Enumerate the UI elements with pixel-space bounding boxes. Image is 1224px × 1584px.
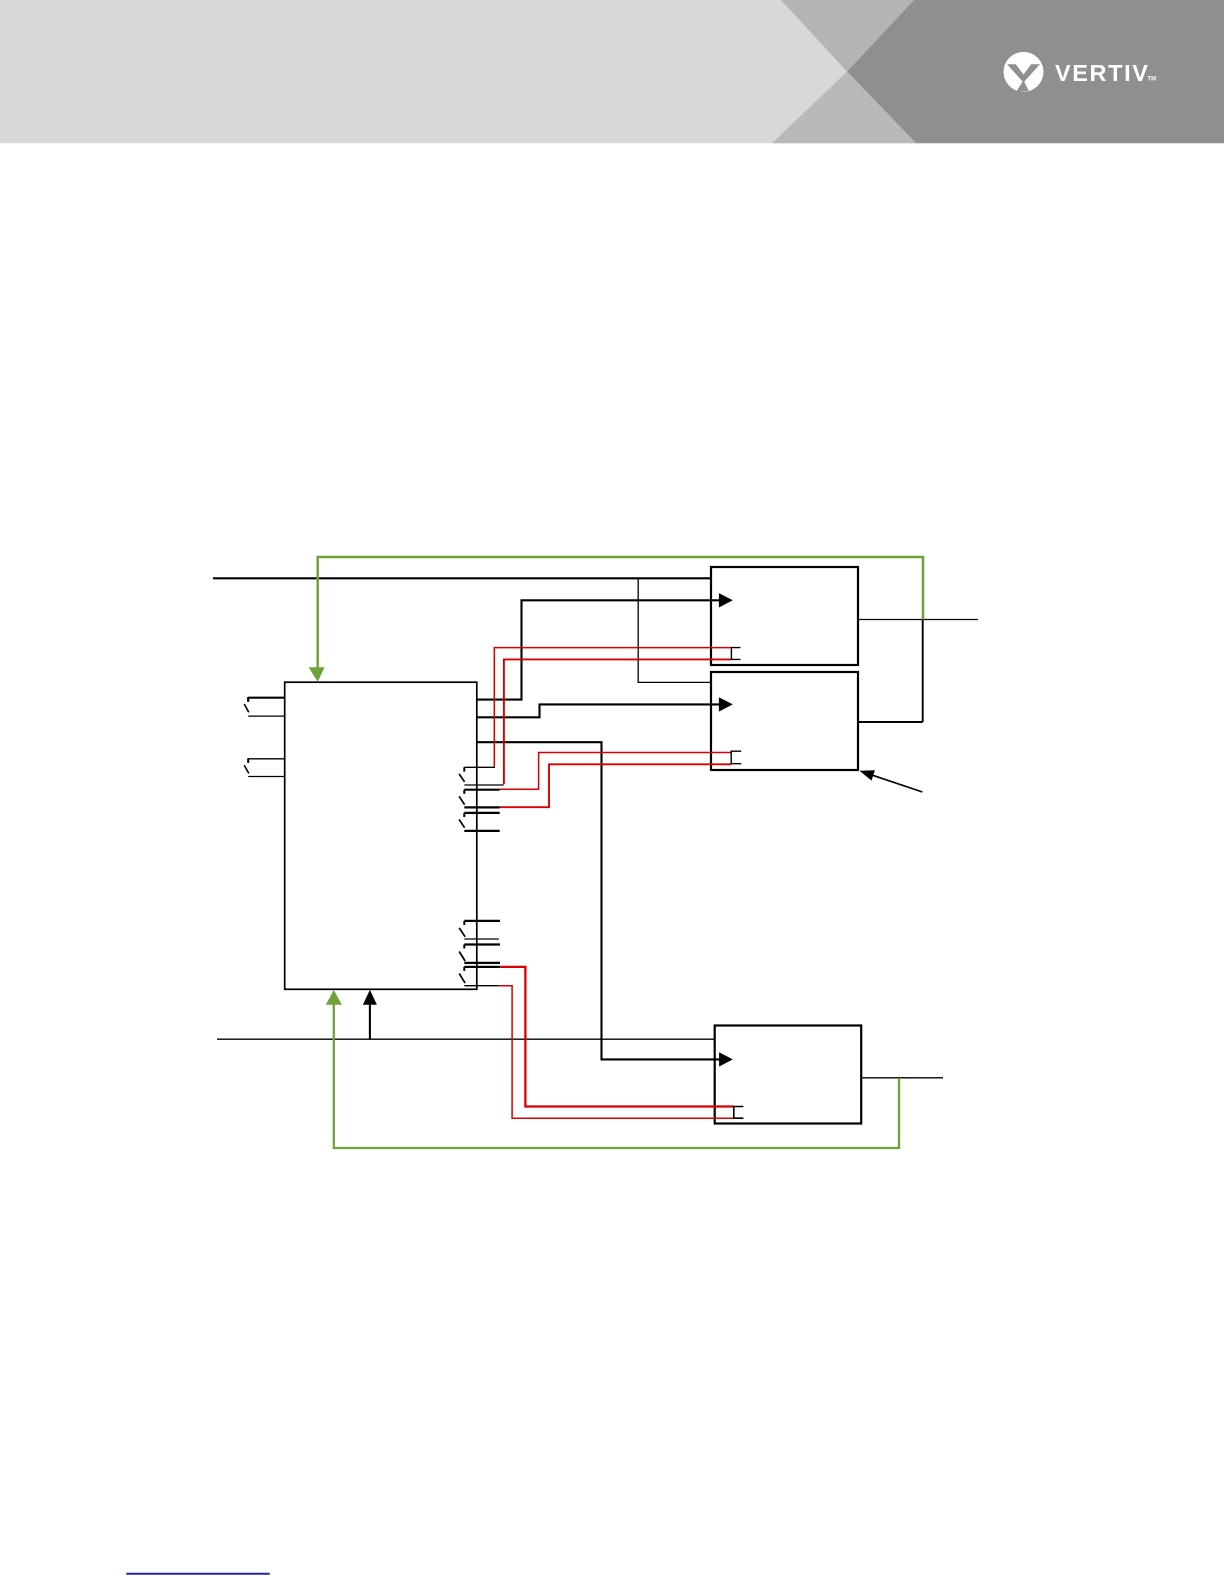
wire box1 right thin [858,619,978,621]
header dark gray right polygon [847,0,1224,143]
box 1 top right [711,567,858,665]
wire black up arrow [369,1002,371,1039]
box 3 bottom right [715,1026,862,1124]
annotation arrow line [871,775,922,792]
green wire bottom path [334,1004,899,1148]
bracket in box3 [734,1107,744,1119]
big controller box [285,682,477,989]
svg-text:VERTIV: VERTIV [1055,60,1149,86]
wire top bus [213,577,711,579]
green wire top path [318,557,923,668]
pin 3 contacts [459,813,500,831]
red wire pin2-top to box2 bracket [500,753,732,790]
wire branch bus to box2 [638,578,711,682]
pin 6 contacts [459,967,500,986]
wire box3 right [861,1077,943,1079]
bracket in box2 [731,751,741,764]
pin 1 contacts [459,767,504,785]
pin 5 contacts [459,945,500,963]
left stub switch 2 [244,758,285,776]
box 2 middle right [711,672,858,770]
header banner light gray [0,0,1224,143]
svg-text:TM: TM [1148,77,1157,83]
Vertiv logo V mark [1007,64,1040,82]
red wire pin6-bottom to box3 bracket [499,986,734,1118]
pin 4 contacts [459,921,500,939]
green arrowhead up [326,990,342,1005]
arrowhead into box3 [719,1052,733,1066]
header mid gray top triangle [781,0,914,72]
wire feed to box2 [477,704,720,717]
arrowhead into box2 [719,697,733,711]
header mid gray bottom triangle [772,72,916,144]
green arrowhead down [309,667,325,682]
red wire pin1-bottom to box1 bracket [504,659,732,784]
Vertiv logo circle [1004,52,1044,92]
blue footer line [126,1573,269,1575]
wire feed to box1 [477,600,720,699]
annotation arrowhead [860,770,875,780]
arrowhead up black [363,990,377,1005]
wire bottom bus [217,1038,715,1040]
red wire pin6-top to box3 bracket [500,967,734,1107]
wire box1-box2 right link [858,620,923,723]
Vertiv logo bottom notch [1016,80,1029,92]
red wire pin1-top to box1 bracket [494,648,731,767]
left stub switch 1 [244,697,285,716]
red wire pin2-bottom to box2 bracket [500,764,732,807]
pin 2 contacts [459,790,500,808]
arrowhead into box1 [719,593,733,607]
wire feed to box3 [477,742,720,1059]
bracket in box1 [731,648,740,660]
